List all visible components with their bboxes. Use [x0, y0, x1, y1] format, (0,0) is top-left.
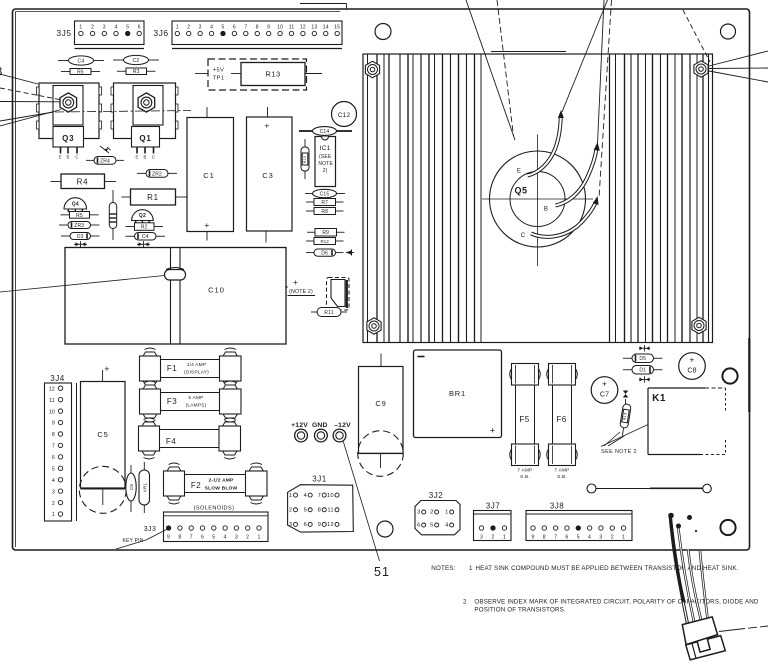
heat sink bolt top left: [365, 61, 379, 77]
connector 3J4: [45, 374, 77, 521]
svg-text:IC1: IC1: [320, 145, 331, 152]
svg-text:5: 5: [304, 507, 307, 513]
svg-text:NOTES:: NOTES:: [431, 565, 455, 572]
leader lines from left edge to Q3: [0, 74, 62, 126]
fuse F5: [510, 364, 541, 481]
resistor R13: [231, 63, 322, 86]
svg-text:2: 2: [91, 24, 94, 30]
transistor Q5: [482, 135, 593, 267]
resistor R1: [122, 189, 187, 205]
svg-text:+: +: [204, 220, 209, 230]
connector plug P1: [682, 617, 725, 660]
svg-text:C4: C4: [77, 59, 84, 65]
bridge rectifier BR1: [414, 350, 502, 438]
resistor R6: [61, 69, 100, 76]
leader line (top, solid) to heat sink: [466, 0, 515, 140]
connector 3J7: [474, 502, 512, 541]
svg-text:E: E: [59, 155, 62, 160]
capacitor C6: [126, 465, 136, 512]
connector 3J1: [288, 475, 354, 533]
capacitor C1: [187, 107, 234, 241]
test point +12V: [291, 422, 308, 442]
svg-text:4: 4: [224, 535, 227, 541]
svg-text:R11: R11: [324, 310, 333, 316]
svg-text:2: 2: [463, 599, 467, 606]
transistor Q3: [37, 83, 102, 160]
leader line to wire C (dashed): [599, 0, 612, 198]
connector 3J2: [415, 491, 460, 535]
label SEE NOTE 2: [601, 449, 637, 455]
fuse F1: [140, 348, 242, 389]
fuse F3: [140, 381, 242, 422]
leader line to wire E: [562, 0, 608, 112]
svg-text:3J4: 3J4: [50, 374, 64, 383]
svg-text:D1: D1: [639, 368, 646, 374]
svg-text:(NOTE 2): (NOTE 2): [289, 289, 313, 295]
svg-text:4: 4: [115, 24, 118, 30]
svg-text:R9: R9: [322, 230, 329, 236]
svg-text:2: 2: [289, 507, 292, 513]
polarity mark below C4: [137, 241, 150, 247]
leader line to wire B: [598, 0, 605, 144]
key pin label: [116, 530, 167, 550]
svg-text:C7: C7: [600, 392, 609, 399]
svg-text:1: 1: [289, 493, 292, 499]
heat sink fins left: [368, 54, 482, 343]
board outline: [13, 9, 750, 550]
fuse F2: [164, 463, 268, 504]
resistor R14 (vertical): [618, 399, 631, 436]
svg-text:7 AMP: 7 AMP: [554, 468, 569, 474]
connector 3J5: [56, 21, 144, 49]
svg-text:7: 7: [190, 535, 193, 541]
svg-text:1: 1: [469, 565, 473, 572]
svg-text:R4: R4: [77, 178, 89, 187]
mounting hole top right: [721, 24, 736, 39]
svg-text:K1: K1: [652, 393, 666, 404]
svg-text:1: 1: [79, 24, 82, 30]
note 1 text: [431, 565, 738, 572]
svg-text:1: 1: [176, 24, 179, 30]
svg-text:ZR4: ZR4: [100, 158, 110, 164]
svg-text:–12V: –12V: [334, 422, 351, 429]
leader line from plug to right edge: [719, 626, 768, 632]
heat sink bolt top right: [694, 61, 708, 77]
fuse F6: [547, 364, 578, 481]
svg-text:+: +: [293, 277, 298, 287]
svg-text:R2: R2: [141, 224, 148, 230]
capacitor C9: [358, 354, 404, 477]
jumper wire W1: [587, 484, 711, 493]
heat sink bolt bottom right: [692, 317, 706, 333]
transistor pad outline (dashed) near R11: [327, 278, 350, 311]
test point TP1 +5V dashed box: [195, 59, 307, 90]
svg-text:R3: R3: [133, 69, 140, 75]
svg-text:+: +: [689, 355, 694, 365]
leader lines to SEE NOTE 2: [601, 425, 648, 447]
svg-text:Q1: Q1: [139, 134, 151, 143]
svg-text:13: 13: [311, 24, 317, 30]
svg-text:F6: F6: [556, 415, 566, 424]
resistor R10: [301, 139, 309, 179]
svg-text:2-1/2 AMP: 2-1/2 AMP: [209, 478, 235, 484]
svg-text:8: 8: [178, 535, 181, 541]
svg-text:7: 7: [318, 493, 321, 499]
svg-text:C9: C9: [375, 399, 386, 408]
svg-text:Q2: Q2: [139, 213, 146, 219]
wire E of Q5: [528, 110, 564, 176]
svg-text:3J6: 3J6: [153, 28, 168, 38]
svg-text:9: 9: [318, 522, 321, 528]
capacitor C4 (top): [58, 56, 104, 65]
svg-text:3: 3: [199, 24, 202, 30]
capacitor C8: [679, 353, 706, 380]
svg-text:4: 4: [210, 24, 213, 30]
svg-text:POSITION OF TRANSISTORS.: POSITION OF TRANSISTORS.: [474, 607, 566, 614]
svg-text:R12: R12: [321, 239, 330, 244]
diode D6: [306, 249, 344, 257]
connector 3J8: [526, 502, 632, 541]
svg-text:+: +: [104, 364, 109, 374]
section dash-dot line through Q3 Q1: [55, 111, 191, 113]
mounting hole bottom left: [377, 521, 393, 537]
svg-text:5: 5: [430, 523, 433, 529]
mounting hole top left: [375, 24, 391, 40]
svg-text:1: 1: [622, 535, 625, 541]
svg-text:C3: C3: [262, 171, 274, 180]
resistor R3: [117, 68, 156, 75]
svg-text:F3: F3: [167, 397, 177, 406]
svg-text:C14: C14: [320, 129, 330, 135]
svg-text:11: 11: [327, 507, 333, 513]
svg-text:3: 3: [103, 24, 106, 30]
capacitor C2: [113, 55, 159, 64]
capacitor C3: [247, 107, 293, 243]
svg-text:2: 2: [246, 535, 249, 541]
zener diode ZR3: [59, 222, 100, 229]
svg-text:10: 10: [277, 24, 283, 30]
svg-text:F1: F1: [167, 364, 177, 373]
svg-text:6: 6: [565, 535, 568, 541]
svg-text:1: 1: [52, 512, 55, 518]
svg-text:KEY PIN: KEY PIN: [122, 538, 143, 544]
svg-text:3J5: 3J5: [56, 28, 71, 38]
svg-text:F2: F2: [191, 481, 201, 490]
svg-text:R7: R7: [321, 200, 328, 206]
svg-text:1: 1: [257, 535, 260, 541]
svg-text:5: 5: [221, 24, 224, 30]
relay K1: [648, 388, 726, 455]
svg-text:Q3: Q3: [62, 134, 74, 143]
note 2 text: [463, 599, 759, 614]
svg-text:E: E: [517, 169, 521, 175]
cable strap on C10: [165, 248, 186, 344]
svg-text:BR1: BR1: [449, 389, 466, 398]
svg-text:SEE NOTE 2: SEE NOTE 2: [601, 449, 637, 455]
svg-text:2): 2): [323, 168, 328, 174]
svg-text:7: 7: [244, 24, 247, 30]
svg-text:R1: R1: [147, 193, 159, 202]
svg-text:TP1: TP1: [213, 76, 225, 82]
resistor R9: [307, 229, 345, 237]
heat sink fins right: [610, 54, 709, 343]
svg-text:5: 5: [577, 535, 580, 541]
resistor R12: [306, 238, 344, 245]
svg-text:(LAMPS): (LAMPS): [186, 403, 207, 409]
wire C of Q5: [531, 196, 599, 237]
capacitor C14: [299, 127, 352, 136]
svg-text:ZR3: ZR3: [74, 223, 84, 229]
svg-text:C5: C5: [97, 430, 108, 439]
svg-text:3: 3: [235, 535, 238, 541]
zener diode ZR2: [137, 170, 177, 178]
varistor VR1: [139, 462, 150, 513]
svg-text:11: 11: [289, 24, 295, 30]
svg-text:15: 15: [334, 24, 340, 30]
capacitor C12: [332, 102, 357, 127]
capacitor C4 (lower): [126, 233, 166, 241]
svg-text:VR1: VR1: [142, 482, 147, 492]
leader line to label 51: [343, 442, 379, 562]
svg-text:+: +: [602, 379, 607, 389]
svg-text:NOTE: NOTE: [318, 161, 333, 167]
svg-text:1: 1: [503, 535, 506, 541]
label 3 at left edge: [0, 65, 3, 79]
svg-text:+: +: [490, 426, 496, 437]
svg-text:6: 6: [138, 24, 141, 30]
svg-text:C2: C2: [132, 58, 139, 64]
svg-text:6: 6: [417, 523, 420, 529]
svg-text:3: 3: [599, 535, 602, 541]
leader dashed top right corner: [683, 10, 710, 62]
svg-text:11: 11: [49, 398, 55, 404]
diode D3: [61, 233, 100, 240]
polarity mark below D1: [639, 376, 650, 382]
svg-text:2: 2: [187, 24, 190, 30]
resistor R2: [126, 223, 164, 231]
svg-text:12: 12: [49, 386, 55, 392]
diode D5: [623, 354, 663, 363]
diode symbol near ZR4: [100, 146, 111, 153]
resistor R2 (vertical): [109, 190, 116, 240]
board right edge thick segment: [748, 338, 750, 412]
svg-text:10: 10: [49, 409, 55, 415]
svg-text:2: 2: [491, 535, 494, 541]
leader line (top, dashed) to heat sink: [497, 0, 514, 136]
svg-text:2: 2: [430, 510, 433, 516]
svg-text:9: 9: [531, 535, 534, 541]
wire harness W2 (4 wires): [669, 513, 708, 623]
test point GND: [312, 422, 328, 442]
svg-text:S.B.: S.B.: [557, 474, 567, 480]
svg-text:3J2: 3J2: [429, 491, 443, 500]
resistor R7: [306, 199, 344, 206]
svg-text:2: 2: [52, 501, 55, 507]
svg-text:7 AMP: 7 AMP: [517, 468, 532, 474]
svg-text:C4: C4: [142, 234, 149, 240]
svg-text:C15: C15: [320, 192, 330, 198]
leader lines from top-right bolt: [709, 51, 768, 82]
svg-text:9: 9: [52, 421, 55, 427]
svg-text:R13: R13: [265, 70, 280, 79]
svg-text:3: 3: [52, 489, 55, 495]
heat sink outline: [363, 52, 713, 343]
svg-text:C6: C6: [129, 484, 134, 491]
svg-text:3J8: 3J8: [550, 502, 564, 511]
resistor R11: [311, 308, 347, 317]
svg-text:(SOLENOIDS): (SOLENOIDS): [194, 506, 235, 512]
svg-text:C12: C12: [338, 112, 351, 119]
svg-text:D3: D3: [77, 234, 84, 240]
svg-text:6: 6: [304, 522, 307, 528]
test point -12V: [333, 422, 351, 442]
svg-text:5: 5: [52, 466, 55, 472]
svg-text:6: 6: [201, 535, 204, 541]
polarity mark below D3: [74, 241, 87, 247]
svg-text:B: B: [144, 155, 147, 160]
transistor Q1: [111, 83, 178, 160]
op-amp IC1: [315, 137, 336, 187]
svg-text:8: 8: [52, 432, 55, 438]
diode D6 polarity arrow: [346, 250, 354, 256]
svg-text:3: 3: [480, 535, 483, 541]
svg-text:9: 9: [167, 535, 170, 541]
diode D1: [623, 366, 663, 375]
label (SOLENOIDS): [194, 506, 235, 512]
svg-text:3J1: 3J1: [312, 475, 326, 484]
svg-text:10: 10: [327, 493, 334, 499]
mounting hole bottom right: [720, 520, 735, 535]
svg-text:HEAT SINK COMPOUND MUST BE APP: HEAT SINK COMPOUND MUST BE APPLIED BETWE…: [476, 565, 739, 572]
svg-text:1: 1: [445, 510, 448, 516]
wire B of Q5: [556, 142, 600, 206]
svg-text:S.B.: S.B.: [520, 474, 530, 480]
svg-text:6: 6: [233, 24, 236, 30]
svg-text:+: +: [264, 121, 269, 131]
svg-text:7: 7: [554, 535, 557, 541]
capacitor C15: [305, 189, 345, 197]
zener diode ZR4: [86, 157, 124, 165]
heat sink bolt bottom left: [367, 318, 381, 334]
transistor Q2: [132, 210, 154, 224]
capacitor C7: [591, 377, 618, 404]
svg-text:R8: R8: [321, 209, 328, 215]
svg-text:(SEE: (SEE: [319, 154, 332, 160]
svg-text:OBSERVE INDEX MARK OF INTEGRAT: OBSERVE INDEX MARK OF INTEGRATED CIRCUIT…: [474, 599, 759, 606]
resistor R4: [51, 174, 117, 189]
svg-text:2: 2: [611, 535, 614, 541]
transistor Q4: [64, 198, 87, 213]
svg-text:4: 4: [52, 478, 55, 484]
svg-text:R5: R5: [76, 213, 83, 219]
polarity mark above D5: [639, 345, 650, 351]
svg-text:7: 7: [52, 444, 55, 450]
svg-text:51: 51: [374, 565, 390, 579]
svg-text:12: 12: [327, 522, 334, 528]
svg-text:F4: F4: [166, 437, 176, 446]
svg-text:8: 8: [256, 24, 259, 30]
svg-text:3J3: 3J3: [144, 526, 157, 533]
svg-text:3J7: 3J7: [486, 502, 500, 511]
svg-text:SLOW BLOW: SLOW BLOW: [205, 486, 238, 492]
svg-text:GND: GND: [312, 422, 328, 429]
mounting hole middle right: [722, 368, 737, 383]
capacitor C10: [65, 248, 286, 345]
svg-text:Q4: Q4: [72, 202, 79, 208]
svg-text:B: B: [67, 155, 70, 160]
connector 3J3: [144, 512, 268, 542]
connector 3J6: [153, 21, 342, 49]
svg-text:D5: D5: [639, 356, 646, 362]
label 51: [374, 565, 390, 579]
svg-text:14: 14: [323, 24, 329, 30]
svg-text:C10: C10: [208, 286, 225, 295]
svg-text:4: 4: [588, 535, 591, 541]
svg-text:C: C: [75, 155, 78, 160]
svg-text:1/4 AMP: 1/4 AMP: [187, 362, 207, 368]
capacitor C5: [79, 364, 126, 513]
svg-text:4: 4: [445, 523, 449, 529]
svg-text:E: E: [136, 155, 139, 160]
svg-text:C8: C8: [687, 368, 696, 375]
svg-text:9: 9: [267, 24, 270, 30]
svg-text:6: 6: [52, 455, 55, 461]
svg-text:8: 8: [318, 507, 321, 513]
resistor R5: [61, 212, 99, 219]
svg-text:5: 5: [212, 535, 215, 541]
svg-text:4: 4: [304, 493, 308, 499]
svg-text:3: 3: [0, 65, 3, 79]
resistor R8: [306, 208, 344, 215]
svg-text:+12V: +12V: [291, 422, 308, 429]
svg-text:C: C: [521, 233, 526, 239]
svg-text:3: 3: [289, 522, 292, 528]
svg-text:(DISPLAY): (DISPLAY): [184, 370, 209, 376]
svg-text:5 AMP: 5 AMP: [188, 395, 203, 401]
svg-text:C1: C1: [203, 171, 215, 180]
svg-text:D6: D6: [321, 251, 328, 257]
node + (NOTE 2): [285, 277, 315, 296]
svg-text:R10: R10: [303, 156, 307, 164]
leader line to strap: [0, 276, 165, 293]
svg-text:R6: R6: [77, 69, 84, 75]
board edge tick: [300, 4, 347, 10]
svg-text:B: B: [544, 207, 548, 213]
svg-text:8: 8: [543, 535, 546, 541]
svg-text:F5: F5: [519, 415, 529, 424]
diode polarity bowtie above R14: [623, 391, 629, 398]
fuse F4: [139, 418, 241, 459]
svg-text:3: 3: [417, 510, 420, 516]
svg-text:Q5: Q5: [514, 186, 527, 196]
svg-text:C: C: [152, 155, 155, 160]
svg-text:5: 5: [126, 24, 129, 30]
svg-text:12: 12: [300, 24, 306, 30]
svg-text:ZR2: ZR2: [152, 171, 162, 177]
svg-text:+5V: +5V: [213, 68, 224, 74]
